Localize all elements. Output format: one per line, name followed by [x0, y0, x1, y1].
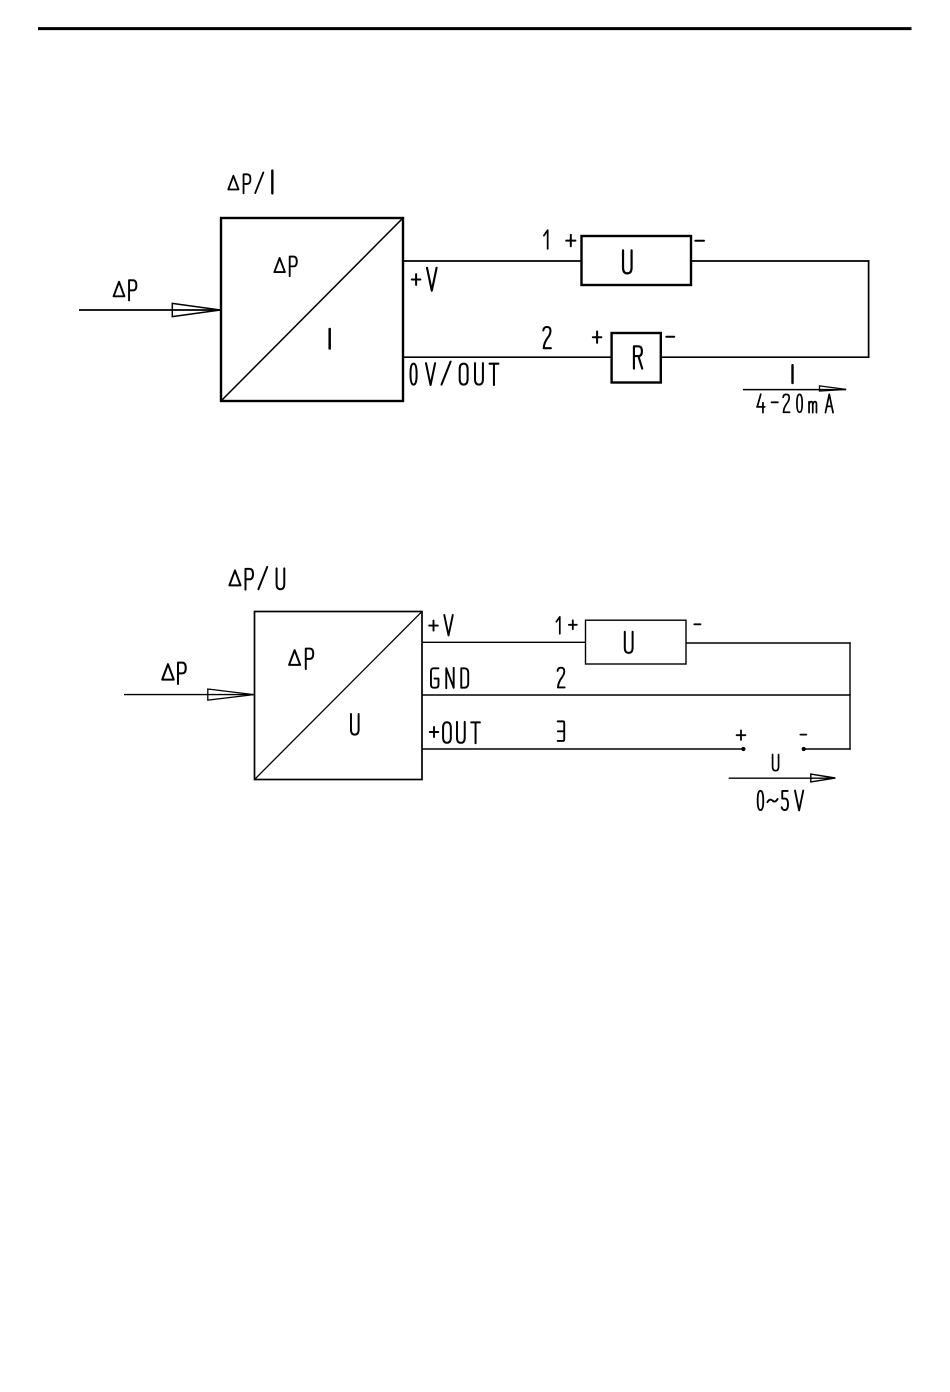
wire resistor R to right rail — [661, 356, 870, 358]
- output terminal dot — [802, 747, 806, 751]
title dP/U label — [229, 567, 284, 590]
polarity + at source U (diagram 2) — [569, 620, 577, 629]
right rail wire (diagram 2) — [849, 642, 851, 749]
wire pin2 GND to right rail — [422, 694, 851, 696]
load resistor R box — [612, 333, 661, 383]
voltage source U letter (diagram 2) — [625, 632, 633, 653]
transducer U2 diagonal divider — [255, 612, 421, 779]
transducer U1 dP section label — [274, 257, 296, 277]
polarity + at source U (diagram 1) — [566, 235, 575, 246]
polarity - at source U (diagram 1) — [695, 240, 704, 242]
polarity + at resistor R — [593, 332, 602, 343]
header rule — [38, 27, 912, 30]
output current arrow line — [743, 389, 846, 391]
input dP wire (diagram 1) — [79, 309, 220, 311]
polarity - at resistor R — [666, 336, 674, 338]
wire source U to right rail (diagram 2) — [686, 642, 851, 644]
voltage source U letter (diagram 1) — [623, 250, 632, 273]
input signal dP label (diagram 1) — [114, 280, 137, 300]
pin +V label (diagram 1) — [412, 268, 437, 291]
transducer U2 dP section label — [289, 649, 313, 670]
pin GND label — [431, 668, 468, 688]
wire pin1 +V to source U — [403, 260, 582, 262]
terminal number 1 (diagram 1) — [544, 230, 548, 249]
+ output terminal polarity — [737, 730, 746, 740]
load resistor R letter — [634, 346, 642, 368]
transducer U1 output I section label — [328, 329, 331, 349]
output current arrowhead — [820, 386, 847, 391]
right rail wire (diagram 1) — [868, 260, 870, 358]
pin +V label (diagram 2) — [429, 615, 453, 635]
output current I symbol — [791, 365, 794, 383]
terminal number 2 (diagram 1) — [543, 327, 551, 348]
terminal number 3 (diagram 2) — [558, 721, 565, 741]
+ output terminal dot — [741, 747, 745, 751]
- output terminal polarity — [800, 734, 806, 736]
transducer block U1 dP/I box — [221, 218, 403, 401]
terminal number 1 (diagram 2) — [556, 617, 559, 634]
output voltage arrowhead — [811, 774, 836, 782]
voltage source U box (diagram 2) — [586, 620, 687, 664]
terminal number 2 (diagram 2) — [558, 668, 565, 688]
output voltage U symbol — [773, 755, 779, 771]
input dP arrowhead (diagram 1) — [172, 303, 220, 316]
wire - terminal to right rail — [804, 748, 851, 750]
input dP arrowhead (diagram 2) — [208, 689, 254, 700]
input signal dP label (diagram 2) — [162, 663, 186, 684]
voltage source U box (diagram 1) — [582, 236, 692, 285]
transducer U2 output U section label — [351, 714, 359, 735]
pin +OUT label — [430, 722, 480, 743]
wire pin1 +V to source U (diagram 2) — [422, 641, 586, 643]
wire pin2 0V/OUT to resistor R — [403, 356, 612, 358]
transducer block U2 dP/U box — [255, 612, 423, 780]
wire source U to right rail — [691, 260, 869, 262]
polarity - at source U (diagram 2) — [694, 623, 700, 625]
transducer U1 diagonal divider — [222, 219, 402, 400]
pin 0V/OUT label — [410, 362, 498, 385]
input dP wire (diagram 2) — [124, 694, 254, 696]
output range 0~5V label — [758, 791, 804, 811]
output range 4-20mA label — [757, 394, 833, 412]
output voltage arrow line — [729, 777, 836, 779]
wire pin3 +OUT to + terminal — [422, 748, 743, 750]
title dP/I label — [228, 171, 272, 194]
